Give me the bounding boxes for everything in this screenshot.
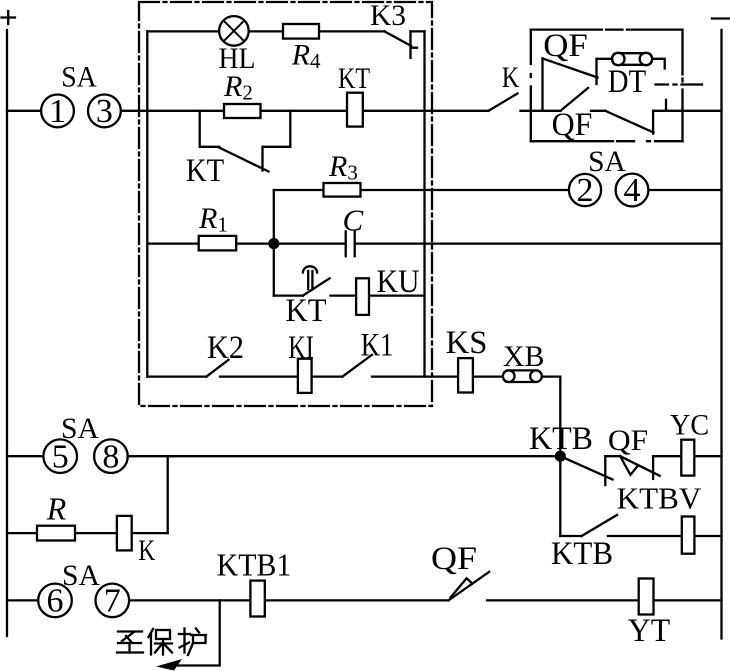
svg-text:R3: R3 xyxy=(328,150,358,185)
svg-text:K: K xyxy=(502,61,520,94)
svg-text:KI: KI xyxy=(288,330,314,366)
svg-text:QF: QF xyxy=(543,28,588,64)
svg-text:6: 6 xyxy=(47,583,64,620)
svg-text:YT: YT xyxy=(628,613,670,649)
svg-text:KT: KT xyxy=(338,62,370,95)
svg-text:KTB: KTB xyxy=(529,421,593,457)
svg-text:SA: SA xyxy=(62,559,100,592)
svg-text:C: C xyxy=(343,202,364,237)
svg-text:K1: K1 xyxy=(361,328,394,364)
svg-text:QF: QF xyxy=(608,424,648,457)
svg-text:R: R xyxy=(46,491,67,527)
svg-text:K: K xyxy=(138,534,155,567)
svg-text:KTB1: KTB1 xyxy=(217,546,292,582)
svg-text:YC: YC xyxy=(670,409,709,442)
svg-text:1: 1 xyxy=(49,93,66,130)
svg-text:5: 5 xyxy=(52,438,69,475)
svg-text:QF: QF xyxy=(552,107,593,143)
svg-text:KTBV: KTBV xyxy=(617,481,702,516)
svg-text:QF: QF xyxy=(431,541,477,577)
svg-text:K2: K2 xyxy=(207,330,244,366)
svg-text:R2: R2 xyxy=(223,70,253,105)
svg-text:3: 3 xyxy=(96,93,113,130)
svg-text:KT: KT xyxy=(186,153,224,189)
svg-text:7: 7 xyxy=(104,583,121,620)
svg-text:SA: SA xyxy=(588,145,626,178)
svg-text:8: 8 xyxy=(102,438,119,475)
svg-text:KU: KU xyxy=(377,264,420,300)
svg-text:4: 4 xyxy=(624,172,641,209)
svg-text:R4: R4 xyxy=(291,38,321,73)
svg-text:KTB: KTB xyxy=(551,536,613,572)
svg-text:2: 2 xyxy=(577,172,594,209)
svg-text:KS: KS xyxy=(446,325,488,361)
svg-text:K3: K3 xyxy=(370,0,406,32)
svg-text:R1: R1 xyxy=(198,202,228,237)
svg-text:SA: SA xyxy=(61,61,97,94)
svg-text:DT: DT xyxy=(608,64,646,100)
svg-text:XB: XB xyxy=(503,340,545,373)
svg-text:KT: KT xyxy=(286,293,327,329)
